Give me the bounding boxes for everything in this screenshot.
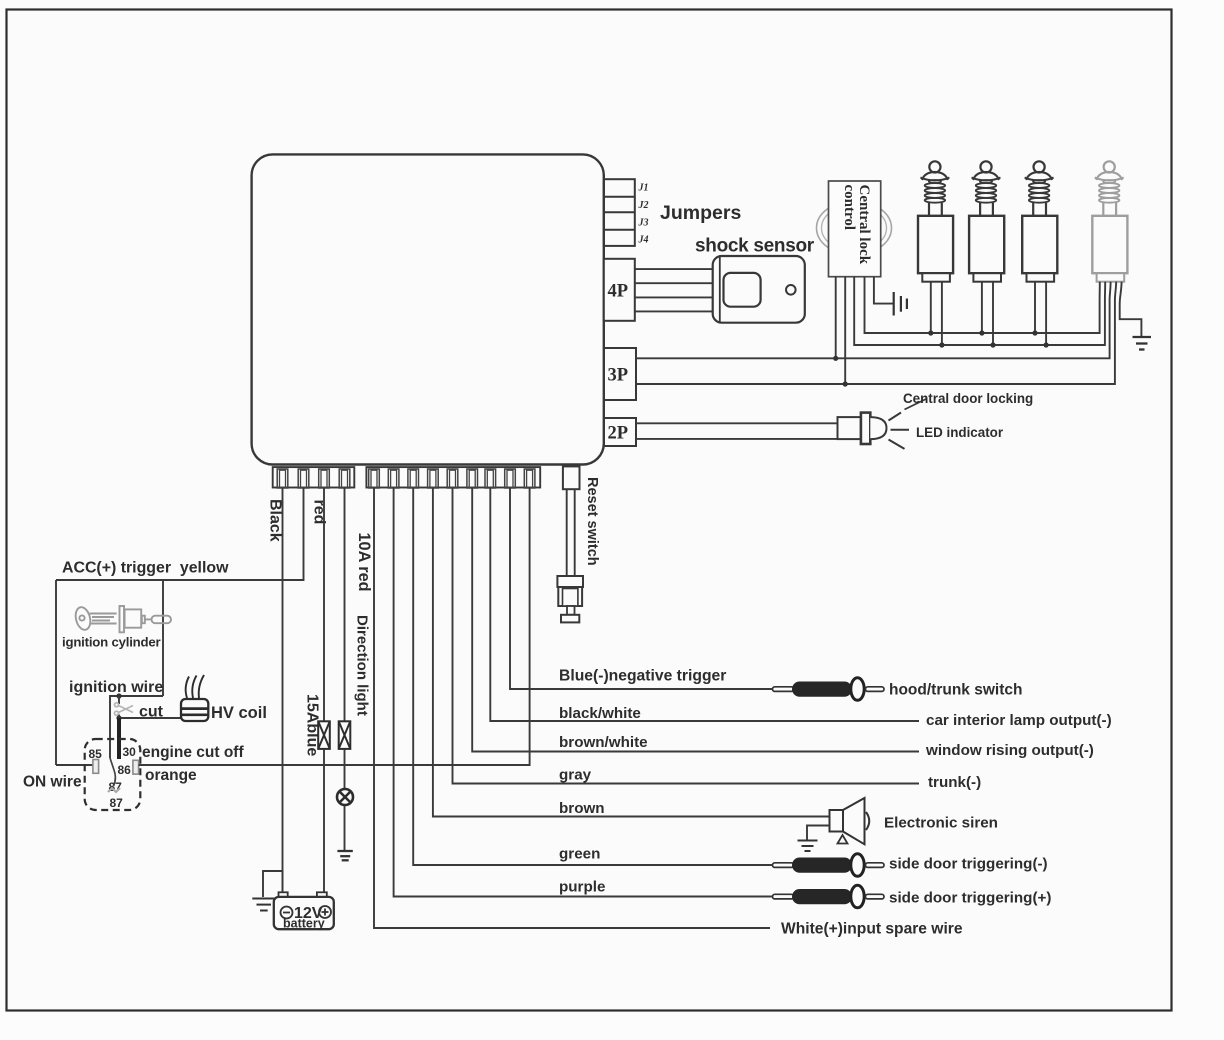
wire to HV coil (119, 717, 181, 719)
svg-text:engine cut off: engine cut off (142, 744, 244, 761)
svg-text:2P: 2P (608, 424, 629, 444)
ground (right) (1133, 337, 1152, 350)
svg-text:ON wire: ON wire (23, 774, 82, 791)
svg-text:ignition wire: ignition wire (69, 679, 163, 696)
svg-text:Blue(-)negative trigger: Blue(-)negative trigger (559, 668, 726, 685)
svg-text:86: 86 (118, 763, 132, 777)
svg-text:brown/white: brown/white (559, 734, 648, 751)
door actuator M3 (1022, 161, 1057, 281)
svg-text:3P: 3P (608, 366, 629, 386)
wire bus4 from 3P (636, 300, 1115, 384)
lamp L1 direction light (337, 789, 353, 805)
svg-text:orange: orange (145, 767, 197, 784)
wire black/white (490, 488, 919, 722)
wire reset (566, 489, 568, 576)
svg-text:J1: J1 (638, 183, 649, 194)
relay pin 86 (133, 760, 139, 774)
control unit U1 (252, 154, 604, 464)
HV coil T1 (181, 675, 208, 721)
pin bracket group 2 (366, 467, 540, 487)
wire pin1 black to battery (282, 488, 284, 893)
wire orange (139, 488, 530, 766)
svg-text:Central door locking: Central door locking (903, 391, 1033, 406)
svg-text:J4: J4 (638, 235, 649, 246)
wire 4P to shock sensor (635, 269, 713, 311)
svg-text:Central lock: Central lock (856, 185, 872, 265)
svg-text:side door triggering(+): side door triggering(+) (889, 890, 1051, 907)
wire actuator M3 rods (1034, 282, 1036, 333)
wire blue negative trigger (510, 488, 772, 690)
svg-text:green: green (559, 846, 600, 863)
wire actuator M1 rods (930, 282, 932, 333)
junction (843, 381, 848, 386)
svg-text:brown: brown (559, 800, 605, 817)
wire actuator M2 rods (981, 282, 983, 333)
central lock control box (829, 181, 881, 277)
svg-text:HV coil: HV coil (211, 704, 267, 722)
svg-text:side door triggering(-): side door triggering(-) (889, 856, 1048, 873)
connector hood/trunk (773, 678, 885, 701)
LED indicator (838, 413, 910, 449)
svg-text:black/white: black/white (559, 705, 641, 722)
wire gray (453, 488, 920, 784)
svg-text:battery: battery (283, 917, 325, 931)
siren SP1 (798, 798, 870, 851)
relay contact 87 (108, 788, 120, 792)
wire cut stubs (118, 696, 120, 704)
wire brown (433, 488, 830, 817)
connector 3P (604, 348, 636, 400)
ground battery (252, 899, 275, 911)
ignition cylinder icon (73, 606, 171, 633)
ground lamp (337, 851, 352, 860)
svg-text:10A red: 10A red (355, 533, 373, 592)
wire white input spare (374, 488, 770, 929)
connector side door plus (773, 885, 885, 908)
svg-text:Reset switch: Reset switch (584, 477, 600, 566)
svg-text:ACC(+) trigger yellow: ACC(+) trigger yellow (62, 560, 229, 577)
svg-text:White(+)input spare wire: White(+)input spare wire (781, 921, 963, 938)
wire pin4 direction light (344, 488, 346, 722)
svg-text:Jumpers: Jumpers (660, 202, 741, 224)
junction (833, 356, 838, 361)
svg-text:ignition cylinder: ignition cylinder (62, 635, 161, 650)
callout line Central door locking (905, 399, 927, 410)
pin bracket group 1 (273, 467, 355, 487)
relay K1 (85, 739, 141, 810)
door actuator M4 (gray) (1092, 161, 1127, 281)
svg-text:gray: gray (559, 767, 592, 784)
svg-text:car interior lamp output(-): car interior lamp output(-) (926, 712, 1112, 729)
wire ignition to relay (110, 696, 163, 758)
connector side door minus (773, 854, 885, 877)
fuse F1 15A (318, 721, 330, 749)
wire bus3 from 3P (636, 300, 1110, 358)
wire lock box 3 (854, 277, 1105, 345)
central lock control circle (817, 201, 892, 255)
ignition box (55, 580, 57, 765)
junction (116, 715, 121, 720)
shock sensor (713, 256, 805, 323)
door actuator M1 (918, 161, 953, 281)
connector 2P (604, 418, 636, 446)
svg-text:4P: 4P (608, 282, 629, 302)
svg-text:red: red (311, 500, 328, 525)
wire 2P to LED (636, 423, 838, 439)
svg-text:purple: purple (559, 879, 605, 896)
svg-text:Direction light: Direction light (354, 615, 371, 716)
ground (rotated) (894, 292, 907, 316)
reset pin (563, 466, 580, 489)
svg-text:LED indicator: LED indicator (916, 425, 1004, 440)
svg-text:shock sensor: shock sensor (695, 236, 815, 257)
unit pins (13) (277, 469, 535, 488)
jumper block J1-J4 (604, 179, 635, 246)
scissors (115, 703, 134, 715)
wire actuator M4 rods (1100, 282, 1142, 336)
connector 4P (604, 259, 635, 321)
wire lock box 5 to ground (874, 277, 894, 304)
wire thick to relay 30 (117, 718, 121, 759)
svg-text:window rising output(-): window rising output(-) (925, 742, 1094, 759)
battery B1 (274, 892, 334, 930)
svg-text:30: 30 (123, 745, 137, 759)
svg-text:Electronic siren: Electronic siren (884, 815, 998, 832)
wire green (413, 488, 772, 866)
wire ACC to pin 2 (56, 488, 304, 581)
svg-text:trunk(-): trunk(-) (928, 774, 981, 791)
relay arm (110, 758, 115, 786)
wire brown/white (472, 488, 919, 752)
wire lock box 4 (865, 277, 1100, 333)
svg-text:hood/trunk switch: hood/trunk switch (889, 682, 1022, 699)
relay pin 85 (93, 760, 99, 774)
wire purple (394, 488, 772, 897)
fuse F2 10A (339, 721, 351, 749)
svg-text:87: 87 (110, 796, 124, 810)
svg-text:J3: J3 (638, 218, 649, 229)
wire lock box 2 (844, 277, 846, 384)
door actuator M2 (969, 161, 1004, 281)
reset switch S1 (557, 576, 583, 622)
wire lock box 1 (835, 277, 837, 359)
svg-text:J2: J2 (638, 200, 649, 211)
svg-text:Black: Black (267, 499, 284, 542)
svg-text:control: control (841, 185, 857, 231)
wire battery to ground (263, 871, 283, 897)
wire pin3 to fuse to battery (323, 488, 325, 722)
